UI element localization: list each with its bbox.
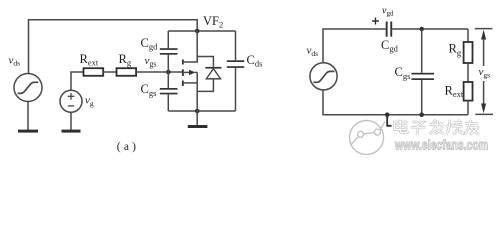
wire: vds to ground <box>27 101 29 130</box>
svg-text:vgs: vgs <box>479 66 491 79</box>
node right top junction dot <box>419 27 424 32</box>
transistor M1 drain stub <box>184 31 197 62</box>
capacitor Cgs (right) <box>412 29 435 115</box>
resistor Rext (right) <box>464 82 473 101</box>
resistor Rg (right) <box>464 42 473 63</box>
capacitor Cds <box>227 31 245 111</box>
svg-text:VF2: VF2 <box>203 14 223 30</box>
node gate junction dot <box>166 70 171 75</box>
wire: Rg to Rext <box>467 63 469 82</box>
annotation vgs arrow line and heads <box>481 30 486 114</box>
ground (left, vg) <box>62 130 81 133</box>
annotation vgs arrow top bar <box>475 28 493 30</box>
svg-text:vg: vg <box>85 94 94 107</box>
wire: vg to ground <box>70 112 72 130</box>
wire: vg corner to gate row <box>71 72 84 91</box>
transistor M1 source stub <box>184 82 197 84</box>
wire: left circuit top rail <box>29 20 198 74</box>
svg-text:vgd: vgd <box>382 5 394 17</box>
svg-text:Rext: Rext <box>445 83 464 99</box>
source vg <box>60 90 82 112</box>
wire: bottom rail (left circuit) <box>168 110 235 112</box>
capacitor Cgd (left) <box>160 31 178 72</box>
watermark logo circle <box>350 121 385 155</box>
capacitor Cgs (left) <box>160 72 178 111</box>
capacitor Cgd (right) plates <box>386 22 392 37</box>
svg-text:Cgd: Cgd <box>141 36 159 52</box>
svg-text:www.elecfans.com: www.elecfans.com <box>394 137 488 153</box>
ground (left circuit, source) <box>188 125 208 128</box>
wire: stub below rail <box>387 115 391 126</box>
svg-text:vds: vds <box>307 45 319 58</box>
annotation vgs arrow bottom bar <box>475 113 493 115</box>
source vds (right) <box>310 63 337 90</box>
svg-text:vgs: vgs <box>145 55 157 69</box>
svg-text:Cgs: Cgs <box>141 82 157 98</box>
wire: right circuit top rail <box>323 29 386 63</box>
wire: right rail to Rg <box>467 29 469 42</box>
svg-text:Rext: Rext <box>80 52 99 68</box>
transistor M1 channel bars <box>182 60 184 87</box>
wire: Rg to gate node <box>136 71 182 73</box>
wire: Rext to bottom rail <box>467 101 469 115</box>
source vds (left) <box>14 74 42 102</box>
svg-text:Cgd: Cgd <box>381 38 399 54</box>
svg-text:(a): (a) <box>117 141 139 153</box>
watermark hanzi white core pass <box>395 120 480 135</box>
transistor M1 body arrow <box>184 70 197 75</box>
svg-text:Cgs: Cgs <box>395 65 411 81</box>
polarity plus sign <box>372 18 379 25</box>
node VF2 junction dot <box>195 29 200 34</box>
node right bottom junction dot <box>419 112 424 117</box>
watermark hanzi outline pass <box>395 120 480 135</box>
wire: source node to ground <box>196 111 198 125</box>
wire: source vertical <box>196 72 198 111</box>
svg-text:Cds: Cds <box>247 53 263 69</box>
diode D1 (body diode) <box>197 57 221 92</box>
resistor Rext (left) <box>84 68 104 76</box>
svg-text:Rg: Rg <box>119 52 132 68</box>
wire: right circuit bottom rail <box>323 90 468 115</box>
node source junction dot <box>195 109 200 114</box>
svg-text:vds: vds <box>9 54 21 67</box>
wire: Cgd to right rail <box>392 28 468 30</box>
wire: Rext to Rg <box>103 71 116 73</box>
wire: node line VF2 <box>168 30 235 32</box>
ground (left, vds) <box>18 130 38 133</box>
svg-text:Rg: Rg <box>449 42 462 58</box>
resistor Rg (left) <box>117 68 137 76</box>
node stub junction dot <box>385 112 390 117</box>
